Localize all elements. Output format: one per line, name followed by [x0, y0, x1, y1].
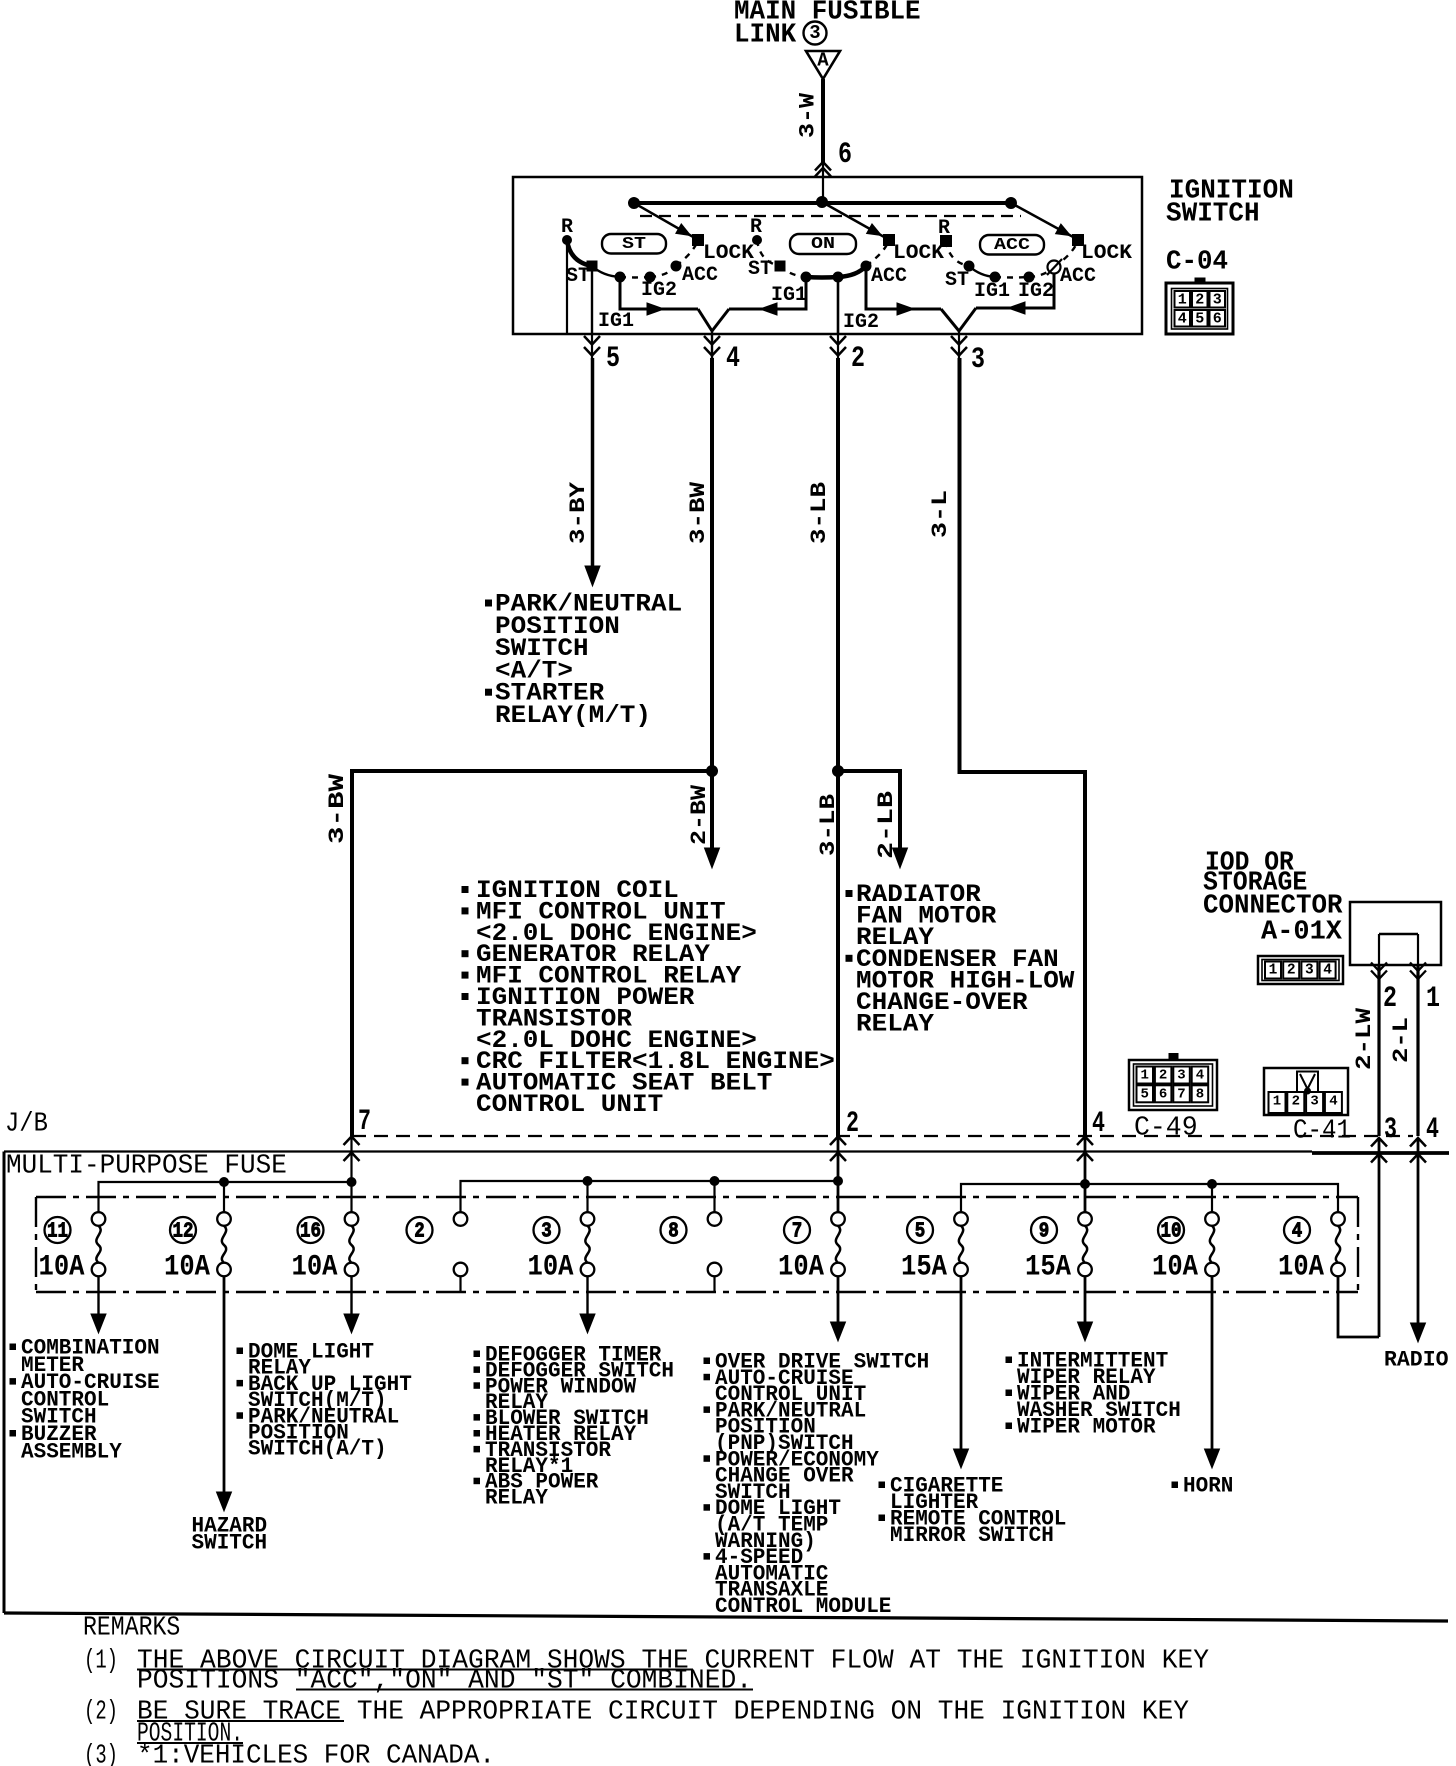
svg-text:4: 4: [1178, 310, 1187, 327]
wire 2-L: [1416, 965, 1419, 1136]
svg-text:6: 6: [1159, 1087, 1167, 1103]
internal dashed line: [640, 215, 1021, 217]
svg-text:3: 3: [1305, 963, 1314, 979]
contact LOCK: [1073, 235, 1084, 246]
contact ST: [587, 261, 597, 271]
fuse bus C: [961, 1184, 1338, 1219]
svg-text:IG1: IG1: [974, 280, 1010, 303]
load list: over drive switch etc: [704, 1350, 929, 1620]
junction node (bus left): [629, 198, 640, 209]
wire IG1(u2) to pin 4: [729, 282, 806, 309]
J/B pin 3 entry chevrons (2-LW): [1371, 1138, 1387, 1147]
svg-text:6: 6: [838, 138, 852, 172]
pin 6 crossing chevrons: [815, 162, 831, 171]
junction dots bus A: [220, 1178, 229, 1187]
svg-text:5: 5: [606, 342, 620, 376]
svg-text:2: 2: [1383, 982, 1397, 1016]
svg-text:1: 1: [1178, 291, 1187, 308]
wire 2-L inside J/B (radio): [1417, 1138, 1420, 1324]
fuse bus B: [461, 1181, 839, 1219]
load list: combination meter / auto-cruise / buzzer: [10, 1336, 160, 1465]
fuse 16 circled number: [298, 1217, 324, 1244]
junction node (bus center, pin6): [817, 197, 828, 208]
svg-text:7: 7: [1177, 1087, 1185, 1103]
contact IG1: [801, 272, 811, 282]
wire 2-LW inside J/B: [1378, 1138, 1381, 1337]
junction box outline: [4, 1150, 1312, 1152]
svg-text:15A: 15A: [901, 1250, 947, 1284]
svg-text:LINK: LINK: [734, 20, 796, 50]
connector C-04 pin grid: [1166, 278, 1233, 334]
svg-text:IG1: IG1: [598, 310, 634, 333]
load list: hazard switch: [192, 1513, 268, 1555]
fuse 2 circled number: [407, 1217, 433, 1244]
svg-text:ON: ON: [811, 235, 835, 254]
fuse 7 (10A): [831, 1212, 845, 1276]
svg-text:IG2: IG2: [641, 279, 677, 302]
svg-text:4: 4: [1196, 1068, 1204, 1084]
svg-text:2: 2: [1195, 291, 1204, 308]
J/B pin 4 entry chevrons: [1077, 1137, 1093, 1146]
switch unit ST contact arc: [567, 240, 592, 266]
load list: horn: [1172, 1474, 1233, 1499]
fuse 16 (10A): [345, 1212, 359, 1276]
connector C-49: [1129, 1054, 1217, 1111]
contact IG2: [645, 272, 655, 282]
fuse 4 output to IOD 2-LW: [1338, 1276, 1379, 1337]
svg-text:5: 5: [1140, 1087, 1148, 1103]
contact LOCK: [693, 235, 704, 246]
svg-text:2: 2: [846, 1107, 859, 1141]
svg-text:2-L: 2-L: [1389, 1017, 1414, 1063]
wire pin4 to fuse 9: [1084, 1137, 1087, 1224]
svg-text:11: 11: [47, 1220, 68, 1244]
wire 3-BW horizontal to J/B: [352, 771, 712, 1136]
junction dot pin4 branch: [707, 766, 718, 777]
wire 2-LB branch: [838, 771, 900, 849]
svg-text:3-BW: 3-BW: [325, 773, 350, 844]
ignition switch box C-04: [513, 177, 1142, 334]
fuse 8 stub: [713, 1276, 715, 1291]
svg-text:CONTROL MODULE: CONTROL MODULE: [715, 1594, 891, 1619]
svg-text:(1): (1): [84, 1646, 118, 1676]
svg-text:8: 8: [668, 1220, 679, 1244]
fuse 10 circled number: [1158, 1217, 1184, 1244]
svg-text:MIRROR SWITCH: MIRROR SWITCH: [890, 1523, 1054, 1548]
load list: defogger etc: [474, 1343, 674, 1511]
svg-text:MULTI-PURPOSE FUSE: MULTI-PURPOSE FUSE: [6, 1151, 287, 1181]
J/B dashed boundary: [352, 1135, 1413, 1137]
svg-text:R: R: [750, 216, 762, 239]
rotary switch unit ON: wiper from bus: [822, 202, 886, 238]
svg-text:WIPER MOTOR: WIPER MOTOR: [1017, 1415, 1156, 1440]
svg-text:2: 2: [851, 342, 865, 376]
svg-text:6: 6: [1213, 310, 1222, 327]
circled 3 (fusible link number): [804, 22, 827, 45]
wire ST contact to pin 5: [591, 271, 593, 334]
svg-text:3: 3: [971, 343, 985, 377]
fuse 10 (10A): [1205, 1212, 1219, 1276]
svg-text:*1:VEHICLES FOR CANADA.: *1:VEHICLES FOR CANADA.: [137, 1741, 495, 1766]
svg-text:ST: ST: [945, 269, 969, 292]
fuse 5 (15A): [954, 1212, 968, 1276]
fuse 11 output wire: [97, 1276, 99, 1316]
fuse 5 circled number: [907, 1217, 933, 1244]
svg-text:3-BW: 3-BW: [686, 481, 711, 544]
svg-text:10A: 10A: [778, 1250, 824, 1284]
fuse 12 (10A): [217, 1212, 231, 1276]
junction dot pin2 branch: [833, 766, 844, 777]
IOD pin 2 chevrons: [1371, 963, 1387, 972]
svg-text:10: 10: [1161, 1220, 1182, 1244]
svg-text:LOCK: LOCK: [1081, 242, 1132, 265]
fusible link symbol A (triangle): [806, 50, 840, 80]
fuse 8 (empty slot): [708, 1212, 722, 1276]
svg-text:2: 2: [1292, 1094, 1300, 1110]
svg-text:R: R: [938, 217, 950, 240]
load list: dome light relay etc: [237, 1340, 412, 1462]
pin 5 crossing chevrons: [584, 336, 600, 345]
svg-text:A: A: [817, 50, 829, 72]
wire IG1(u1) to pin 4: [620, 281, 698, 309]
svg-text:5: 5: [915, 1220, 926, 1244]
svg-text:10A: 10A: [528, 1250, 574, 1284]
svg-text:ASSEMBLY: ASSEMBLY: [21, 1439, 123, 1464]
svg-text:4: 4: [726, 342, 740, 376]
fuse 3 output wire: [586, 1276, 588, 1316]
contact ACC (open): [1048, 261, 1061, 274]
svg-text:C-04: C-04: [1166, 247, 1228, 277]
svg-text:3-LB: 3-LB: [807, 482, 832, 544]
fuse 8 circled number: [661, 1217, 687, 1244]
svg-text:5: 5: [1195, 310, 1204, 327]
svg-text:4: 4: [1329, 1094, 1337, 1110]
destination list: park/neutral position switch: [486, 590, 683, 731]
wire pin7 to fuse 16: [350, 1137, 352, 1219]
wire 3-W vertical: [821, 79, 825, 163]
svg-text:C-41: C-41: [1293, 1116, 1351, 1146]
load list: wiper relay etc: [1006, 1349, 1181, 1440]
wire 3-L from pin 3: [960, 358, 1086, 1136]
svg-text:2-LB: 2-LB: [874, 791, 899, 859]
internal bus wire: [634, 201, 1011, 205]
svg-text:CONTROL UNIT: CONTROL UNIT: [476, 1090, 663, 1119]
destination list: ignition coil etc: [462, 876, 835, 1119]
svg-text:10A: 10A: [1278, 1250, 1324, 1284]
svg-text:1: 1: [1269, 963, 1278, 979]
connector C-41: [1264, 1068, 1348, 1115]
fuse 2 stub: [459, 1276, 461, 1291]
J/B pin 7 entry chevrons: [344, 1137, 360, 1146]
svg-text:SWITCH: SWITCH: [1166, 199, 1260, 229]
svg-text:10A: 10A: [164, 1250, 210, 1284]
fuse 7 circled number: [784, 1217, 810, 1244]
riser fuse 12: [223, 1182, 225, 1219]
contact LOCK: [884, 235, 895, 246]
svg-text:16: 16: [300, 1220, 321, 1244]
fuse 16 output wire: [350, 1276, 352, 1316]
fuse 11 (10A): [92, 1212, 106, 1276]
IOD connector box: [1350, 902, 1441, 965]
svg-text:2: 2: [414, 1220, 425, 1244]
fuse 4 (10A): [1331, 1212, 1345, 1276]
svg-text:4: 4: [1092, 1107, 1105, 1141]
svg-text:RELAY: RELAY: [856, 1010, 934, 1039]
switch unit ON contact arc: [757, 240, 780, 266]
svg-text:4: 4: [1292, 1220, 1303, 1244]
fuse 9 (15A): [1078, 1212, 1092, 1276]
svg-text:IG2: IG2: [1018, 280, 1054, 303]
riser fuse 8: [713, 1181, 715, 1219]
svg-text:ACC: ACC: [682, 264, 718, 287]
svg-text:1: 1: [1140, 1068, 1148, 1084]
junction dots bus B: [583, 1177, 592, 1186]
svg-text:2: 2: [1159, 1068, 1167, 1084]
svg-text:4: 4: [1323, 963, 1332, 979]
contact ST: [775, 261, 785, 271]
J/B pin 2 entry chevrons: [830, 1137, 846, 1146]
svg-text:ACC: ACC: [994, 236, 1030, 255]
svg-text:3: 3: [1177, 1068, 1185, 1084]
svg-text:12: 12: [173, 1220, 194, 1244]
wire R(ST unit) to box bottom: [566, 244, 568, 333]
svg-text:J/B: J/B: [5, 1109, 48, 1139]
rotary switch unit ST: wiper from bus: [634, 203, 695, 238]
svg-text:15A: 15A: [1025, 1250, 1071, 1284]
svg-text:1: 1: [1426, 982, 1440, 1016]
svg-text:3-LB: 3-LB: [816, 794, 841, 856]
wire IG2(u2) to pin 2: [837, 282, 840, 334]
contact ST: [964, 261, 974, 271]
remarks section: [83, 1613, 1209, 1766]
svg-text:RELAY: RELAY: [485, 1486, 549, 1511]
fuse 12 circled number: [170, 1217, 196, 1244]
contact ACC: [861, 261, 871, 271]
J/B pin 4 entry chevrons (2-L): [1410, 1138, 1426, 1147]
position pill ST: [602, 234, 666, 254]
svg-text:3-W: 3-W: [795, 92, 820, 138]
svg-text:A-01X: A-01X: [1261, 917, 1342, 947]
svg-text:8: 8: [1196, 1087, 1204, 1103]
svg-text:2-BW: 2-BW: [687, 784, 712, 845]
svg-text:10A: 10A: [39, 1250, 85, 1284]
svg-text:R: R: [561, 216, 573, 239]
svg-text:ST: ST: [748, 258, 772, 281]
contact IG2: [833, 272, 843, 282]
svg-text:ST: ST: [622, 235, 646, 254]
wire 3-BW from pin 4: [710, 358, 714, 771]
pin 4 crossing chevrons: [704, 336, 720, 345]
svg-text:ACC: ACC: [1060, 265, 1096, 288]
fuse 4 circled number: [1284, 1217, 1310, 1244]
wire ACC(u2) to pin 3: [866, 271, 941, 309]
wire pin2 to fuse 7: [837, 1137, 840, 1224]
IOD internal jumper: [1379, 933, 1418, 936]
fuse bus A: [99, 1182, 352, 1218]
svg-text:LOCK: LOCK: [893, 242, 944, 265]
svg-text:IG2: IG2: [843, 311, 879, 334]
fuse 5 output wire (cigarette): [960, 1276, 963, 1450]
svg-text:(2): (2): [84, 1697, 118, 1727]
svg-text:4: 4: [1426, 1113, 1439, 1147]
svg-text:3: 3: [1213, 291, 1222, 308]
svg-text:ACC: ACC: [871, 265, 907, 288]
svg-text:3-L: 3-L: [928, 490, 953, 538]
wire 2-BW branch: [710, 771, 714, 849]
contact R: [941, 236, 952, 247]
svg-text:2: 2: [1287, 963, 1296, 979]
svg-text:(3): (3): [84, 1741, 118, 1766]
wire 3-LB from pin 2: [836, 358, 840, 1136]
svg-text:3: 3: [541, 1220, 552, 1244]
junction dots bus C: [1081, 1180, 1090, 1189]
riser fuse 3: [586, 1181, 588, 1219]
junction node (bus right): [1006, 198, 1017, 209]
position pill ON: [790, 234, 856, 254]
fuse area dash-dot boundary: [36, 1196, 1358, 1198]
fuse 10 output wire (horn): [1211, 1276, 1214, 1450]
svg-text:10A: 10A: [1152, 1250, 1198, 1284]
wire 3-BY from pin 5: [591, 358, 595, 567]
rotary switch unit ACC: wiper from bus: [1011, 203, 1075, 238]
pin 3 crossing chevrons: [951, 336, 967, 345]
destination list: radiator fan motor relay etc: [846, 880, 1074, 1039]
pin 2 crossing chevrons: [830, 336, 846, 345]
connector A-01X pin strip: [1258, 956, 1343, 984]
svg-text:3: 3: [1384, 1113, 1397, 1147]
wire ACC(u3) to pin 3: [976, 273, 1054, 308]
fuse 7 output wire: [837, 1276, 840, 1323]
svg-text:7: 7: [358, 1105, 371, 1139]
fuse 9 circled number: [1031, 1217, 1057, 1244]
switch unit ACC contact arc: [946, 241, 969, 266]
svg-text:ST: ST: [566, 265, 590, 288]
fuse 9 output wire: [1084, 1276, 1087, 1323]
svg-text:10A: 10A: [292, 1250, 338, 1284]
fuse 3 (10A): [581, 1212, 595, 1276]
contact R: [753, 236, 762, 245]
contact R: [563, 236, 572, 245]
contact ACC: [671, 261, 681, 271]
svg-text:REMARKS: REMARKS: [83, 1613, 180, 1643]
position pill ACC: [980, 235, 1044, 255]
svg-text:LOCK: LOCK: [703, 242, 754, 265]
fuse 3 circled number: [534, 1217, 560, 1244]
fuse 11 circled number: [45, 1217, 71, 1244]
svg-text:3: 3: [1310, 1094, 1318, 1110]
svg-text:3-BY: 3-BY: [566, 481, 591, 544]
load list: cigarette lighter etc: [879, 1474, 1066, 1549]
riser fuse 10: [1211, 1184, 1213, 1219]
svg-text:2-LW: 2-LW: [1352, 1007, 1377, 1070]
fuse 2 (empty slot): [454, 1212, 468, 1276]
contact IG1: [615, 272, 625, 282]
wire 2-LW: [1377, 965, 1380, 1136]
svg-text:9: 9: [1039, 1220, 1050, 1244]
svg-text:SWITCH(A/T): SWITCH(A/T): [248, 1437, 387, 1462]
svg-text:RADIO: RADIO: [1384, 1348, 1449, 1373]
IOD pin 1 chevrons: [1410, 963, 1426, 972]
svg-text:C-49: C-49: [1134, 1113, 1198, 1143]
fuse 12 output wire (hazard): [223, 1276, 226, 1493]
svg-text:HORN: HORN: [1183, 1474, 1233, 1499]
svg-text:RELAY(M/T): RELAY(M/T): [495, 701, 651, 730]
svg-text:7: 7: [792, 1220, 803, 1244]
svg-text:1: 1: [1273, 1094, 1281, 1110]
svg-text:3: 3: [809, 22, 820, 44]
contact IG2: [1024, 272, 1034, 282]
svg-text:SWITCH: SWITCH: [192, 1530, 268, 1555]
contact IG1: [990, 272, 1000, 282]
